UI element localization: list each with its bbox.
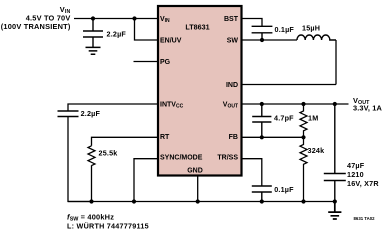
svg-text:L: WÜRTH 7447779115: L: WÜRTH 7447779115 (67, 221, 149, 230)
capacitor C3 0.1uF BST (252, 25, 295, 40)
svg-text:3.3V, 1A: 3.3V, 1A (353, 104, 382, 113)
ground rail bottom (68, 201, 335, 203)
node C5-rail (260, 199, 264, 203)
wire C2 bottom to ground rail (68, 117, 92, 202)
svg-text:1M: 1M (308, 113, 318, 122)
node C6-rail-ground (333, 199, 337, 203)
wire IND (242, 84, 336, 86)
wire R1 bottom to rail (91, 165, 93, 201)
capacitor C6 47uF output (324, 104, 380, 202)
svg-text:PG: PG (160, 59, 171, 66)
node GND-rail (196, 199, 200, 203)
svg-text:2.2µF: 2.2µF (81, 109, 101, 118)
svg-text:(100V TRANSIENT): (100V TRANSIENT) (1, 22, 71, 31)
svg-text:VIN: VIN (160, 16, 170, 24)
capacitor C4 4.7pF (252, 104, 294, 137)
svg-text:SW: SW (227, 38, 239, 45)
wire PG stub (134, 61, 159, 63)
node R3-rail (301, 199, 305, 203)
svg-text:SYNC/MODE: SYNC/MODE (160, 155, 203, 162)
node R1-rail (89, 199, 93, 203)
svg-text:1210: 1210 (347, 170, 364, 179)
svg-text:TR/SS: TR/SS (217, 155, 238, 162)
node VOUT-C6 (333, 102, 337, 106)
svg-text:EN/UV: EN/UV (160, 38, 182, 45)
node FB-C4 (260, 135, 264, 139)
svg-text:IND: IND (226, 82, 238, 89)
node C3-SW (260, 38, 264, 42)
ground under C1 (86, 47, 101, 54)
node SYNC-rail (132, 199, 136, 203)
wire VIN input to pin VIN (74, 18, 158, 20)
capacitor C2 2.2uF INTVCC (58, 109, 101, 118)
wire RT (92, 137, 159, 146)
wire SYNC/MODE down (134, 159, 158, 202)
inductor L1 15uH (297, 23, 336, 40)
svg-text:0.1µF: 0.1µF (275, 25, 295, 34)
wire L1 down to IND (335, 40, 337, 85)
node junction at C1 (91, 16, 95, 20)
svg-text:BST: BST (224, 16, 239, 23)
wire TR/SS (242, 159, 262, 186)
resistor R2 1M (300, 104, 318, 137)
capacitor C5 0.1uF TR/SS (252, 185, 294, 202)
svg-text:324k: 324k (308, 146, 325, 155)
svg-text:4.5V TO 70V: 4.5V TO 70V (26, 13, 71, 22)
svg-text:FB: FB (229, 134, 238, 141)
resistor R1 25.5k (88, 146, 118, 166)
resistor R3 324k (300, 137, 324, 201)
svg-text:2.2µF: 2.2µF (107, 29, 127, 38)
svg-text:LT8631: LT8631 (185, 22, 209, 31)
node FB-R3 (301, 135, 305, 139)
output label VOUT (353, 96, 382, 113)
svg-text:4.7pF: 4.7pF (274, 113, 294, 122)
svg-text:RT: RT (160, 134, 170, 141)
node junction EN branch (132, 16, 136, 20)
svg-text:15µH: 15µH (302, 23, 320, 32)
svg-text:VOUT: VOUT (223, 102, 238, 110)
svg-text:47µF: 47µF (347, 161, 365, 170)
svg-text:25.5k: 25.5k (99, 148, 118, 157)
input source label VIN (1, 5, 71, 31)
ground symbol right (328, 202, 341, 220)
svg-text:INTVCC: INTVCC (160, 102, 184, 110)
wire EN/UV branch (135, 19, 159, 41)
node VOUT-R2 (301, 102, 305, 106)
wire BST (242, 19, 262, 27)
svg-text:GND: GND (187, 168, 203, 175)
IC U1 LT8631 body (158, 6, 242, 176)
wire SW (242, 39, 297, 41)
wire GND pin (197, 176, 199, 202)
node VOUT-C4 (260, 102, 264, 106)
wire VOUT (242, 103, 349, 105)
svg-text:8631 TA02: 8631 TA02 (354, 216, 376, 221)
svg-text:0.1µF: 0.1µF (274, 185, 294, 194)
svg-text:16V, X7R: 16V, X7R (347, 179, 379, 188)
wire FB (242, 136, 304, 138)
capacitor C1 2.2uF input (83, 19, 126, 48)
wire INTVCC (68, 104, 158, 111)
